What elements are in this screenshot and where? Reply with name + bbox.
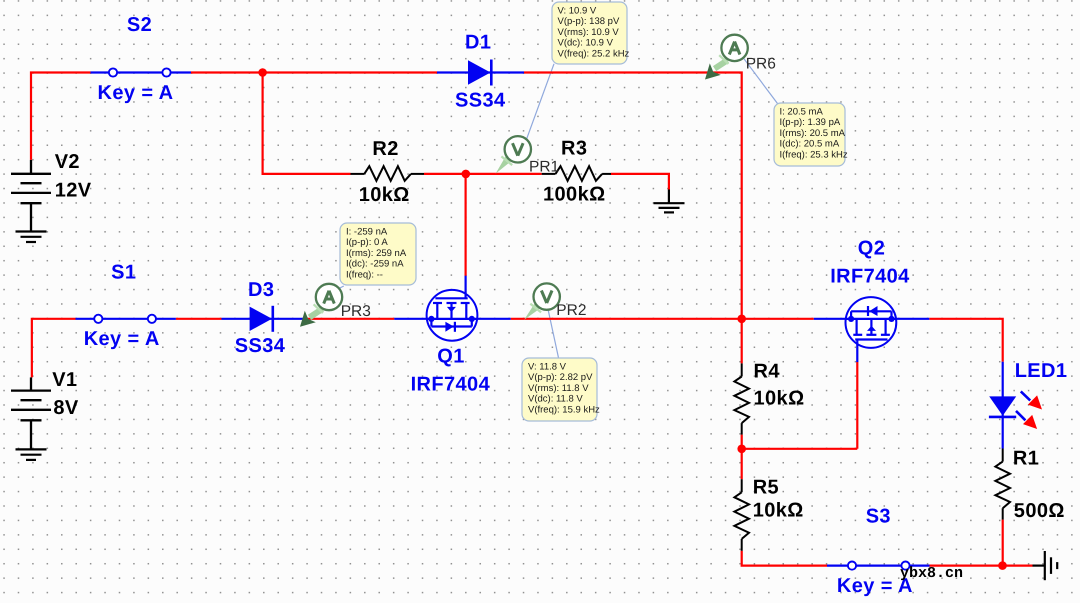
wire R1 bottom	[1002, 520, 1004, 566]
svg-text:PR6: PR6	[746, 56, 776, 73]
resistor R4	[734, 363, 749, 434]
wire R5 to S3	[742, 551, 827, 566]
svg-text:V(p-p): 138 pV: V(p-p): 138 pV	[558, 16, 620, 27]
battery V1	[11, 377, 51, 449]
svg-text:8V: 8V	[53, 397, 79, 419]
svg-text:IRF7404: IRF7404	[830, 265, 910, 287]
ground right of R3	[654, 190, 685, 213]
svg-text:10kΩ: 10kΩ	[754, 387, 805, 409]
probe PR3 (A)	[300, 284, 342, 327]
svg-text:S1: S1	[111, 262, 136, 284]
callout box PR6 measurements	[774, 103, 848, 166]
svg-text:Key = A: Key = A	[98, 82, 174, 104]
svg-text:V(rms): 11.8 V: V(rms): 11.8 V	[528, 383, 589, 394]
diode D1	[437, 60, 524, 86]
svg-text:I: -259 nA: I: -259 nA	[346, 226, 388, 237]
svg-text:V: 10.9 V: V: 10.9 V	[558, 5, 597, 16]
svg-text:PR2: PR2	[556, 302, 586, 319]
wire node A to Q2 gate	[742, 448, 858, 450]
diode D3	[222, 306, 304, 332]
wire V2 to S2	[31, 73, 91, 160]
junction top wire	[258, 68, 267, 77]
svg-text:V(rms): 10.9 V: V(rms): 10.9 V	[558, 27, 620, 38]
svg-text:PR3: PR3	[341, 303, 371, 320]
red wire segments	[31, 73, 1033, 566]
transistor Q1 IRF7404	[394, 276, 510, 341]
resistor R5	[734, 479, 749, 551]
svg-text:D1: D1	[465, 32, 491, 54]
switch S2	[91, 68, 192, 76]
svg-text:I(p-p): 0 A: I(p-p): 0 A	[346, 237, 388, 248]
junction R1 bottom	[998, 561, 1007, 570]
wire Q2 gate down	[856, 362, 858, 449]
svg-text:V1: V1	[52, 369, 77, 391]
svg-text:V(freq): 25.2 kHz: V(freq): 25.2 kHz	[558, 48, 630, 59]
callout box PR1 measurements	[552, 2, 630, 64]
svg-text:R3: R3	[561, 138, 587, 160]
resistor R1	[995, 449, 1010, 520]
callout box PR3 measurements	[340, 223, 416, 285]
wire R4 bottom to node A	[741, 435, 743, 449]
svg-text:Q1: Q1	[437, 345, 464, 367]
svg-text:SS34: SS34	[455, 90, 506, 112]
wire S3 to ground	[930, 564, 1033, 566]
switch S1	[76, 315, 176, 323]
wire top junction down to R2	[263, 73, 351, 174]
svg-text:V(freq): 15.9 kHz: V(freq): 15.9 kHz	[528, 404, 600, 415]
svg-text:I: 20.5 mA: I: 20.5 mA	[780, 106, 824, 117]
ground bottom right (rotated)	[1033, 551, 1058, 580]
svg-text:I(rms): 20.5 mA: I(rms): 20.5 mA	[780, 128, 846, 139]
junction R2-R3 node	[462, 170, 471, 179]
probe PR6 (A)	[705, 35, 748, 80]
svg-text:R2: R2	[372, 138, 398, 160]
svg-text:R5: R5	[753, 477, 779, 499]
resistor R3	[542, 166, 611, 181]
ground below V2	[16, 232, 47, 243]
wire S2 to D1	[191, 71, 437, 73]
junction main row	[737, 315, 746, 324]
svg-text:LED1: LED1	[1015, 360, 1068, 382]
wire: probe PR2 callout leader line	[548, 310, 559, 359]
svg-text:V2: V2	[55, 151, 80, 173]
wire: probe PR6 callout leader line	[744, 58, 778, 103]
wire D3 to Q1	[303, 318, 394, 320]
svg-text:R1: R1	[1013, 448, 1039, 470]
probe PR1 (V)	[496, 136, 531, 174]
wire V1 to S1	[32, 319, 76, 378]
transistor Q2 IRF7404	[814, 297, 930, 362]
svg-text:I(dc): -259 nA: I(dc): -259 nA	[346, 259, 404, 270]
wire: probe PR3 callout leader line	[337, 286, 344, 290]
svg-text:100kΩ: 100kΩ	[543, 183, 606, 205]
svg-text:V(p-p): 2.82 pV: V(p-p): 2.82 pV	[528, 372, 593, 383]
wire R3 to ground	[611, 174, 669, 190]
svg-text:12V: 12V	[55, 180, 92, 202]
svg-text:S3: S3	[866, 505, 891, 527]
svg-text:I(freq): --: I(freq): --	[346, 269, 383, 280]
svg-text:500Ω: 500Ω	[1014, 500, 1065, 522]
svg-text:ybx8.cn: ybx8.cn	[900, 565, 963, 582]
battery V2	[11, 160, 51, 232]
junction R4-R5 node A	[737, 445, 746, 454]
svg-text:SS34: SS34	[235, 335, 286, 357]
svg-text:S2: S2	[127, 14, 152, 36]
switch S3	[827, 562, 930, 570]
wire Q1 to Q2	[511, 318, 814, 320]
svg-text:10kΩ: 10kΩ	[753, 500, 804, 522]
svg-text:I(freq): 25.3 kHz: I(freq): 25.3 kHz	[780, 149, 848, 160]
svg-text:I(dc): 20.5 mA: I(dc): 20.5 mA	[780, 139, 840, 150]
svg-text:V(dc): 10.9 V: V(dc): 10.9 V	[558, 38, 614, 49]
svg-text:I(p-p): 1.39 pA: I(p-p): 1.39 pA	[780, 117, 841, 128]
wire: probe PR1 callout leader line	[526, 64, 554, 141]
svg-text:Q2: Q2	[858, 237, 885, 259]
wire node to Q1 gate	[465, 174, 467, 276]
probe PR2 (V)	[524, 283, 560, 319]
wire node A to R5	[741, 449, 743, 479]
svg-text:I(rms): 259 nA: I(rms): 259 nA	[346, 248, 407, 259]
LED1	[989, 362, 1042, 449]
svg-text:V: 11.8 V: V: 11.8 V	[528, 361, 567, 372]
svg-text:PR1: PR1	[529, 159, 559, 176]
svg-text:IRF7404: IRF7404	[411, 373, 491, 395]
resistor R2	[351, 166, 425, 181]
callout box PR2 measurements	[522, 358, 600, 421]
svg-text:10kΩ: 10kΩ	[359, 184, 410, 206]
wire R2 to R3	[424, 173, 542, 175]
wire Q2 to LED1	[929, 319, 1002, 362]
wire S1 to D3	[176, 318, 222, 320]
svg-text:V(dc): 11.8 V: V(dc): 11.8 V	[528, 394, 583, 405]
ground below V1	[16, 449, 47, 460]
svg-text:D3: D3	[248, 279, 274, 301]
svg-text:R4: R4	[754, 361, 781, 383]
wire D1 to R4 via top-right corner	[524, 73, 742, 364]
svg-text:Key = A: Key = A	[84, 328, 160, 350]
